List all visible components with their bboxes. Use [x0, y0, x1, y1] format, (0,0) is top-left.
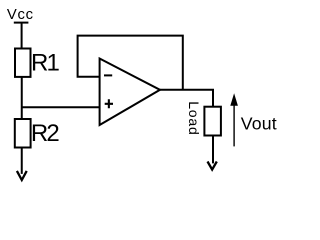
wire feedback loop: from - input up, across top, down to output: [78, 36, 183, 90]
svg-text:R2: R2: [31, 120, 60, 147]
svg-text:Vcc: Vcc: [7, 7, 34, 23]
resistor R1: [15, 49, 31, 77]
svg-text:Load: Load: [186, 101, 202, 135]
wire node to op-amp + input: [22, 106, 100, 108]
wire R2 to ground: [21, 148, 23, 174]
ground (left): [17, 171, 27, 180]
ground (right): [208, 162, 217, 170]
wire op-amp output to Load: [160, 90, 213, 107]
Vcc supply symbol: [14, 22, 29, 24]
wire R1 to R2: [21, 77, 23, 119]
op-amp U1: [100, 59, 160, 126]
Vout arrowhead: [230, 93, 238, 106]
svg-text:R1: R1: [31, 50, 60, 77]
resistor R2: [15, 119, 31, 148]
Vout arrow shaft: [233, 105, 235, 146]
minus sign (inverting input): [104, 74, 112, 76]
svg-text:Vout: Vout: [241, 114, 277, 134]
resistor Load: [204, 107, 221, 136]
wire Vcc to R1: [21, 23, 23, 49]
wire Load to ground: [212, 136, 214, 164]
plus sign (non-inverting input): [105, 99, 113, 108]
